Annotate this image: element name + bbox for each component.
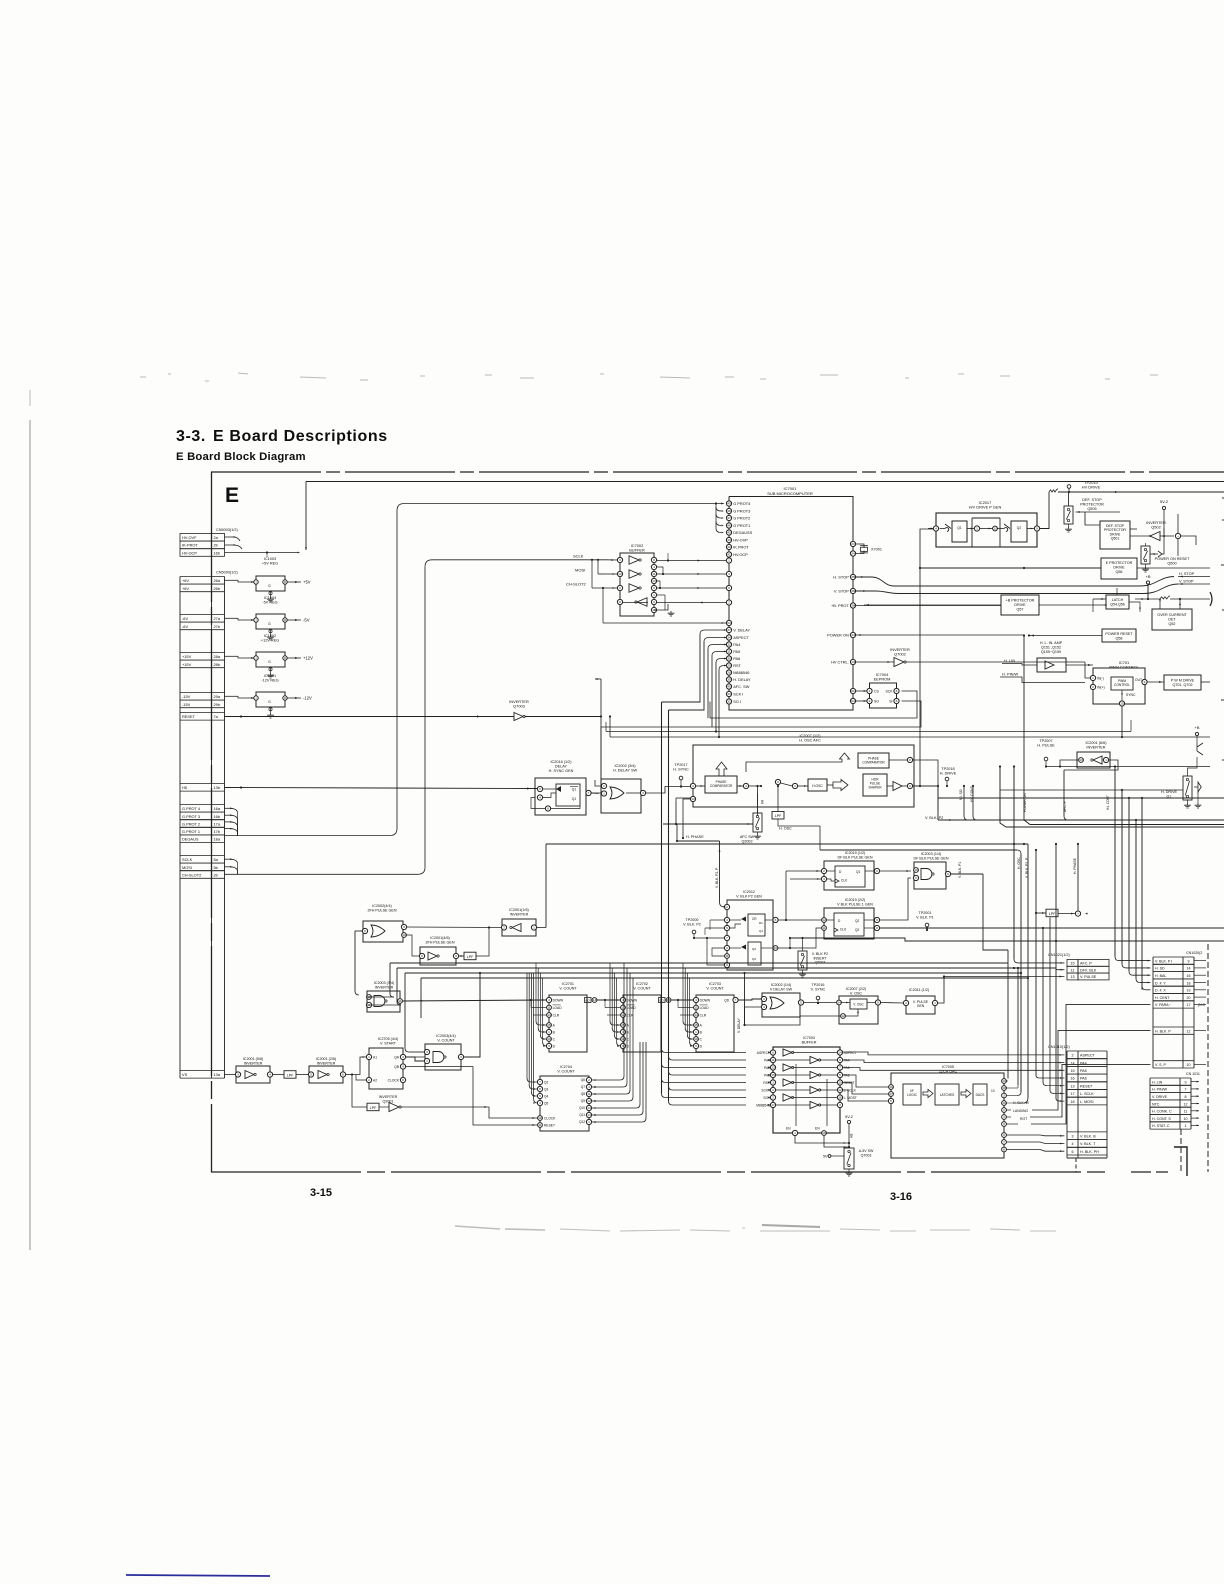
ic IC2001(6/6) inverter — [1077, 752, 1110, 768]
LPF afc — [772, 812, 792, 831]
svg-text:Q12: Q12 — [579, 1120, 585, 1124]
connector CN5000(1/2) table — [180, 577, 225, 1079]
svg-text:2: 2 — [728, 601, 730, 605]
wire E protector input — [919, 567, 1101, 569]
svg-text:19: 19 — [1002, 1101, 1006, 1105]
svg-text:H. BAL: H. BAL — [1155, 974, 1166, 978]
svg-text:H. STOP: H. STOP — [1179, 572, 1195, 576]
svg-text:5: 5 — [728, 586, 730, 590]
svg-text:10: 10 — [538, 1116, 542, 1120]
svg-text:5: 5 — [539, 787, 541, 791]
svg-text:3-15: 3-15 — [310, 1187, 332, 1199]
svg-text:V. PARA~: V. PARA~ — [1155, 1003, 1171, 1007]
svg-text:H. DRIVE: H. DRIVE — [1161, 790, 1178, 794]
blue pen line bottom left — [126, 1575, 270, 1576]
svg-text:2b: 2b — [214, 872, 218, 877]
svg-text:2FH PULSE GEN: 2FH PULSE GEN — [367, 908, 396, 912]
svg-text:E PROTECTOR: E PROTECTOR — [1106, 561, 1133, 565]
svg-text:4: 4 — [653, 565, 655, 569]
svg-text:16: 16 — [889, 1085, 893, 1089]
wire delay out — [646, 785, 691, 793]
svg-text:Q7003: Q7003 — [861, 1153, 872, 1157]
svg-text:11: 11 — [652, 572, 655, 576]
svg-text:LOAD: LOAD — [627, 1006, 637, 1010]
svg-text:+6V: +6V — [182, 586, 189, 591]
wire tp2000 line — [694, 937, 724, 939]
wire buffer feedback column — [623, 553, 670, 610]
svg-text:17: 17 — [889, 1092, 893, 1096]
switch Q7003 A-5V SW — [823, 1148, 874, 1176]
power node 5V-2 right top — [1160, 499, 1169, 534]
svg-text:DRIVE: DRIVE — [1113, 565, 1125, 569]
svg-text:13: 13 — [1079, 758, 1083, 762]
ic IC701 label — [1109, 660, 1139, 670]
svg-text:3: 3 — [237, 1073, 239, 1077]
svg-text:19: 19 — [1187, 989, 1191, 993]
svg-text:6: 6 — [775, 918, 777, 922]
wire long vertical left of AFC box — [661, 702, 663, 1094]
afc outer box right pins — [889, 757, 939, 810]
frame top border — [211, 471, 1224, 473]
svg-text:Q2: Q2 — [1017, 526, 1022, 530]
net label V.BLK.P2 right — [925, 816, 943, 820]
svg-text:V. COUNT: V. COUNT — [706, 986, 724, 990]
svg-text:10: 10 — [402, 933, 406, 937]
svg-text:TP2001: TP2001 — [919, 911, 932, 915]
svg-text:D1: D1 — [759, 921, 763, 925]
svg-text:29b: 29b — [214, 702, 221, 707]
svg-text:+12V REG: +12V REG — [261, 639, 279, 643]
net label H.STOP right — [1178, 572, 1210, 577]
svg-text:LPF: LPF — [467, 955, 474, 959]
svg-text:CLOCK: CLOCK — [388, 1079, 400, 1083]
svg-text:CLK: CLK — [841, 879, 848, 883]
svg-text:V. COUNT: V. COUNT — [633, 986, 651, 990]
ic IC2001(5/6) inverter — [235, 1066, 272, 1083]
svg-text:SO: SO — [874, 700, 879, 704]
svg-text:IC2702: IC2702 — [636, 982, 648, 986]
power reset Q58 — [1028, 629, 1136, 642]
svg-text:Q6: Q6 — [581, 1078, 585, 1082]
wire sync to delay — [591, 792, 598, 795]
svg-text:7: 7 — [735, 998, 737, 1002]
testpoint TP2000 — [683, 918, 701, 939]
wire POWER ON line — [855, 634, 1026, 820]
svg-text:EN: EN — [815, 1127, 820, 1131]
svg-text:14: 14 — [621, 1013, 625, 1017]
ic IC2019(2/2) label — [837, 898, 873, 906]
connector CN1020 table — [1153, 957, 1206, 1068]
wire HV.CONT drop — [972, 785, 977, 820]
ic IC7005 right pins — [1002, 1079, 1030, 1152]
svg-text:IC2704: IC2704 — [560, 1065, 572, 1069]
ic IC2002(1/4) label — [770, 983, 793, 991]
svg-text:IC2016 (1/2): IC2016 (1/2) — [550, 760, 572, 764]
svg-text:IC2002(4/4): IC2002(4/4) — [372, 904, 391, 908]
wire dac to cn1010 blk rows — [1006, 1135, 1064, 1152]
svg-text:27a: 27a — [214, 616, 221, 621]
svg-text:QB: QB — [394, 1065, 400, 1069]
buffer IC7002 — [617, 553, 674, 616]
svg-text:L. MOST: L. MOST — [844, 1096, 857, 1100]
svg-text:Q151 ,Q152: Q151 ,Q152 — [1041, 645, 1061, 649]
svg-text:G.PROT 2: G.PROT 2 — [182, 821, 200, 826]
svg-text:IC1002: IC1002 — [264, 634, 276, 638]
wire lpf right links — [1035, 912, 1046, 914]
svg-text:M888546: M888546 — [733, 670, 749, 675]
svg-text:18: 18 — [822, 1131, 826, 1135]
svg-text:15: 15 — [547, 1023, 551, 1027]
wire lower bus 1 — [366, 963, 1008, 997]
H.LIN amp label — [1040, 641, 1063, 654]
svg-text:+: + — [1077, 912, 1079, 916]
svg-text:RESET: RESET — [1080, 1084, 1093, 1088]
node circles afc chain — [737, 779, 808, 788]
over current det Q52 — [1152, 599, 1192, 630]
svg-text:5: 5 — [726, 926, 728, 930]
svg-text:5: 5 — [890, 1099, 892, 1103]
svg-text:IC2019 (2/2): IC2019 (2/2) — [845, 898, 866, 902]
svg-text:RST: RST — [733, 663, 741, 668]
svg-text:14: 14 — [838, 1051, 842, 1055]
wire long vertical 2 left of AFC box — [668, 710, 670, 1101]
wire eeprom loop 2 — [601, 701, 921, 786]
net label H.PHASE mid — [686, 835, 704, 839]
svg-text:2: 2 — [726, 905, 728, 909]
svg-text:A1: A1 — [373, 1056, 377, 1060]
svg-text:2: 2 — [368, 1078, 370, 1082]
svg-text:D. F. Y: D. F. Y — [1155, 981, 1166, 985]
svg-text:+B: +B — [1195, 725, 1200, 730]
svg-text:3: 3 — [460, 1055, 462, 1059]
svg-text:4: 4 — [763, 997, 765, 1001]
svg-text:1: 1 — [653, 593, 655, 597]
svg-text:IC2001(1/6): IC2001(1/6) — [509, 908, 528, 912]
svg-text:H. DELAY: H. DELAY — [733, 677, 751, 682]
svg-text:TP2017: TP2017 — [674, 763, 687, 767]
svg-text:V. OSC: V. OSC — [850, 991, 862, 995]
svg-text:G: G — [268, 700, 271, 704]
svg-text:CLR: CLR — [700, 1013, 707, 1017]
hollow arrow up into phase comp1 — [716, 762, 727, 776]
svg-text:DF BLK PULSE GEN: DF BLK PULSE GEN — [913, 856, 948, 860]
ic IC2001(2/6) label — [316, 1057, 337, 1065]
svg-text:BO: BO — [660, 999, 665, 1003]
svg-text:9: 9 — [777, 780, 779, 784]
ic IC2007(1/2) label — [799, 734, 821, 742]
ic IC2002(3/4) H delay SW — [591, 779, 646, 813]
net label SCLK — [573, 554, 584, 559]
svg-text:G.PROT 3: G.PROT 3 — [182, 814, 200, 819]
counter IC2702 — [620, 982, 670, 1052]
wire latch riser from +B — [1147, 584, 1149, 599]
svg-text:6: 6 — [772, 1051, 774, 1055]
wire afc sw up — [756, 785, 779, 816]
svg-text:5V-2: 5V-2 — [1160, 499, 1169, 504]
svg-text:IC2705 (4/4): IC2705 (4/4) — [378, 1037, 399, 1041]
svg-text:12: 12 — [993, 527, 997, 531]
svg-text:-5V REG: -5V REG — [262, 601, 277, 605]
connector CN5003(1/2) table — [180, 528, 238, 556]
svg-text:DELAY: DELAY — [555, 764, 568, 768]
svg-text:V. SYNC: V. SYNC — [811, 987, 826, 991]
svg-text:H. STAT. C: H. STAT. C — [1152, 1124, 1170, 1128]
svg-text:9: 9 — [839, 1058, 841, 1062]
ic IC2011(1/2) label — [909, 988, 929, 992]
svg-text:SI: SI — [889, 700, 892, 704]
svg-text:Q2: Q2 — [752, 947, 756, 951]
svg-text:V. PULSE: V. PULSE — [1080, 975, 1097, 979]
svg-text:V. BLK. T: V. BLK. T — [1080, 1142, 1096, 1146]
svg-text:Q4: Q4 — [544, 1094, 548, 1098]
svg-text:29: 29 — [727, 664, 731, 668]
svg-text:IC2019 (1/2): IC2019 (1/2) — [845, 851, 866, 855]
svg-text:DACS: DACS — [976, 1093, 985, 1097]
svg-text:1: 1 — [976, 527, 978, 531]
svg-text:AFC. P: AFC. P — [1080, 962, 1092, 966]
svg-text:ASPECT: ASPECT — [1080, 1054, 1096, 1058]
svg-text:17a: 17a — [214, 821, 221, 826]
svg-text:5: 5 — [310, 1073, 312, 1077]
hollow arrow up to phase comp2 — [746, 753, 850, 772]
svg-text:4: 4 — [269, 1073, 271, 1077]
counter IC2704 — [533, 1076, 597, 1131]
svg-text:4: 4 — [1003, 1115, 1005, 1119]
ic IC2002(4/4) label — [367, 904, 396, 912]
wire cn1010 bottom link — [1075, 1158, 1077, 1172]
svg-text:4: 4 — [692, 784, 694, 788]
bus label HV.CONT — [970, 786, 974, 802]
svg-text:1: 1 — [1185, 1124, 1187, 1128]
net label CH-SLOT2 — [566, 582, 587, 587]
board letter E — [225, 484, 239, 507]
svg-text:12: 12 — [1184, 1102, 1188, 1106]
svg-text:1: 1 — [934, 1001, 936, 1005]
svg-text:LOGIC: LOGIC — [907, 1093, 918, 1097]
svg-text:5: 5 — [839, 1073, 841, 1077]
svg-text:H. PIN/W: H. PIN/W — [1002, 672, 1019, 677]
wire V.DELAY riser — [743, 972, 745, 1026]
svg-text:11: 11 — [725, 954, 728, 958]
svg-text:Q5: Q5 — [544, 1101, 548, 1105]
wire delay sw input2 — [595, 780, 601, 786]
counter IC2704 label — [557, 1065, 575, 1073]
wire cn1021 dfx feed — [1014, 968, 1064, 971]
svg-text:27b: 27b — [214, 624, 221, 629]
svg-text:10: 10 — [1184, 1117, 1188, 1121]
inverter Q7003 label — [509, 699, 529, 709]
svg-text:+: + — [1177, 534, 1179, 538]
wire vdelay out — [804, 1002, 837, 1004]
ic IC2016 delay H sync gen — [531, 778, 591, 815]
svg-text:18: 18 — [1187, 981, 1191, 985]
svg-text:H5: H5 — [182, 785, 187, 790]
svg-text:MOSI: MOSI — [182, 865, 192, 870]
wire lower bus 3 — [405, 972, 1022, 1052]
svg-text:16a: 16a — [214, 806, 221, 811]
inverter Q502 — [1130, 532, 1181, 541]
svg-text:1: 1 — [368, 1055, 370, 1059]
svg-text:+B: +B — [1145, 574, 1150, 579]
svg-text:Q10: Q10 — [579, 1106, 585, 1110]
svg-text:CN1020(2: CN1020(2 — [1186, 951, 1202, 955]
svg-text:V. BLK P2 GEN: V. BLK P2 GEN — [736, 894, 762, 898]
ic IC2001(1/6) label — [509, 908, 528, 916]
svg-text:H/V DRIVE P GEN: H/V DRIVE P GEN — [969, 505, 1002, 510]
connector CN1011 label — [1186, 1072, 1200, 1076]
svg-text:20: 20 — [1187, 996, 1191, 1000]
svg-text:11: 11 — [1071, 968, 1075, 972]
svg-text:Q57: Q57 — [1017, 607, 1024, 611]
svg-text:8: 8 — [1003, 1148, 1005, 1152]
lpf vs line — [284, 1071, 296, 1079]
svg-text:9: 9 — [1144, 680, 1146, 684]
svg-text:13: 13 — [1002, 1079, 1006, 1083]
testpoint TP2016 — [811, 983, 826, 1004]
svg-text:L. SCLK: L. SCLK — [1080, 1092, 1094, 1096]
inverter Q7002 — [894, 658, 906, 667]
svg-text:BUFFER: BUFFER — [629, 548, 645, 553]
svg-text:5V: 5V — [823, 1155, 828, 1159]
svg-text:9: 9 — [455, 954, 457, 958]
svg-text:5: 5 — [896, 699, 898, 703]
svg-text:IC2001(4/6): IC2001(4/6) — [430, 936, 449, 940]
svg-text:39: 39 — [727, 678, 731, 682]
wire bus y847 hosc — [784, 826, 1021, 1092]
wire ic2012 outputs — [778, 870, 821, 949]
wire lower bus risers — [1017, 849, 1037, 1085]
svg-text:SUB MICROCOMPUTER: SUB MICROCOMPUTER — [767, 491, 813, 496]
wire counter down/load/clr — [529, 999, 693, 1015]
bus label POWER ON rotated — [1023, 793, 1027, 812]
svg-text:H. PIN/W: H. PIN/W — [1152, 1088, 1168, 1092]
svg-text:45: 45 — [727, 531, 731, 535]
svg-text:+15V: +15V — [182, 662, 192, 667]
power node +B far right — [1195, 725, 1203, 755]
svg-text:3: 3 — [642, 791, 644, 795]
inverter Q502 label — [1146, 520, 1166, 530]
svg-text:17: 17 — [771, 1103, 775, 1107]
lpf q2001 — [367, 1103, 379, 1111]
svg-text:17: 17 — [1070, 1092, 1074, 1096]
svg-text:5: 5 — [539, 1094, 541, 1098]
svg-text:H. BLK. P: H. BLK. P — [1155, 1029, 1171, 1033]
svg-text:INVERTER: INVERTER — [379, 1095, 398, 1099]
svg-text:G.PROT 1: G.PROT 1 — [182, 829, 200, 834]
svg-text:3: 3 — [1003, 1094, 1005, 1098]
svg-text:IC7005: IC7005 — [942, 1065, 954, 1069]
ic IC2003(3/4) inverter label — [374, 981, 395, 989]
svg-text:IC2001 (2/6): IC2001 (2/6) — [316, 1057, 337, 1061]
svg-text:H.OSC: H.OSC — [812, 784, 823, 788]
svg-text:14: 14 — [547, 1013, 551, 1017]
wire buffer to micro — [657, 560, 727, 604]
svg-text:DOWN: DOWN — [627, 998, 638, 1002]
svg-text:6: 6 — [1071, 1150, 1073, 1154]
svg-text:CN 1011: CN 1011 — [1186, 1072, 1200, 1076]
svg-text:34: 34 — [727, 636, 731, 640]
svg-text:-5V: -5V — [303, 618, 310, 623]
svg-text:7: 7 — [539, 1080, 541, 1084]
svg-text:IC2703: IC2703 — [709, 982, 721, 986]
AFC SW Q2002 — [740, 794, 764, 844]
svg-text:CH-SLOT2: CH-SLOT2 — [566, 582, 587, 587]
svg-text:1: 1 — [603, 792, 605, 796]
svg-text:AFC. SW: AFC. SW — [733, 684, 750, 689]
regulator IC1001 -12V REG — [225, 674, 313, 718]
wire eeprom loop 1 — [710, 691, 917, 718]
svg-text:14: 14 — [837, 1001, 841, 1005]
svg-text:Q8: Q8 — [581, 1092, 585, 1096]
svg-text:E: E — [225, 484, 239, 507]
svg-text:OUT: OUT — [1135, 678, 1142, 682]
svg-text:IN(+): IN(+) — [1097, 686, 1105, 690]
svg-text:(N.C: (N.C — [1198, 1003, 1206, 1007]
counter IC2701 — [546, 982, 596, 1052]
svg-text:-6V: -6V — [182, 616, 188, 621]
ic IC7001 left pins — [726, 501, 752, 704]
switch Q2003 V BLK P2 insert — [798, 937, 828, 977]
wire CN5003 riser — [225, 482, 307, 558]
wire V.BLK.P2.P riser — [719, 841, 726, 908]
svg-text:2: 2 — [823, 869, 825, 873]
svg-text:Q2002: Q2002 — [741, 839, 752, 843]
ic IC2001(1/6) inverter — [501, 919, 536, 936]
wire fan to IC7003 rows — [662, 1049, 771, 1106]
hor pulse shaper — [863, 774, 893, 796]
svg-text:LOAD: LOAD — [553, 1006, 563, 1010]
svg-text:2: 2 — [619, 586, 621, 590]
wire V.STOP line — [855, 584, 1178, 594]
svg-text:GEN: GEN — [917, 1004, 925, 1008]
svg-text:COMPARATOR: COMPARATOR — [710, 784, 733, 788]
svg-text:10: 10 — [914, 868, 918, 872]
wire H5 line — [225, 786, 538, 789]
svg-text:3: 3 — [539, 1101, 541, 1105]
svg-text:9: 9 — [548, 1044, 550, 1048]
svg-text:14: 14 — [694, 1013, 698, 1017]
svg-text:2: 2 — [726, 946, 728, 950]
svg-text:5V-2: 5V-2 — [845, 1115, 853, 1119]
svg-text:9: 9 — [1188, 959, 1190, 963]
svg-text:IC2003 (1/4): IC2003 (1/4) — [921, 852, 942, 856]
wire band line 824 — [1024, 820, 1224, 825]
svg-text:1: 1 — [869, 689, 871, 693]
svg-text:G.PROT 4: G.PROT 4 — [182, 806, 201, 811]
svg-text:18a: 18a — [214, 837, 221, 842]
ic IC2017 H/V DRIVE P GEN — [928, 513, 1040, 547]
svg-text:Q2: Q2 — [544, 1080, 548, 1084]
ic IC7005 12CH DAC — [888, 1073, 1004, 1158]
wire AFC feedback line — [663, 710, 753, 825]
svg-text:Q7002: Q7002 — [894, 652, 906, 657]
svg-text:LOAD: LOAD — [700, 1006, 710, 1010]
svg-text:Q155~Q159: Q155~Q159 — [1041, 650, 1061, 654]
svg-text:Q505: Q505 — [1087, 507, 1096, 511]
regulator IC1002 +12V REG — [225, 634, 314, 678]
svg-text:H8: H8 — [760, 800, 764, 804]
bus label AFC.P rotated — [1063, 800, 1067, 812]
svg-text:28b: 28b — [214, 662, 221, 667]
ic IC2019(1/2) DF BLK pulse gen — [821, 861, 879, 890]
inverter Q7003 — [514, 713, 525, 721]
ic IC7001 outline — [729, 497, 853, 711]
svg-text:23: 23 — [851, 542, 855, 546]
svg-text:LPF: LPF — [1049, 912, 1056, 916]
svg-text:31: 31 — [727, 700, 731, 704]
ic IC2012 label — [736, 890, 762, 898]
wire MI.SO drop — [963, 785, 968, 820]
